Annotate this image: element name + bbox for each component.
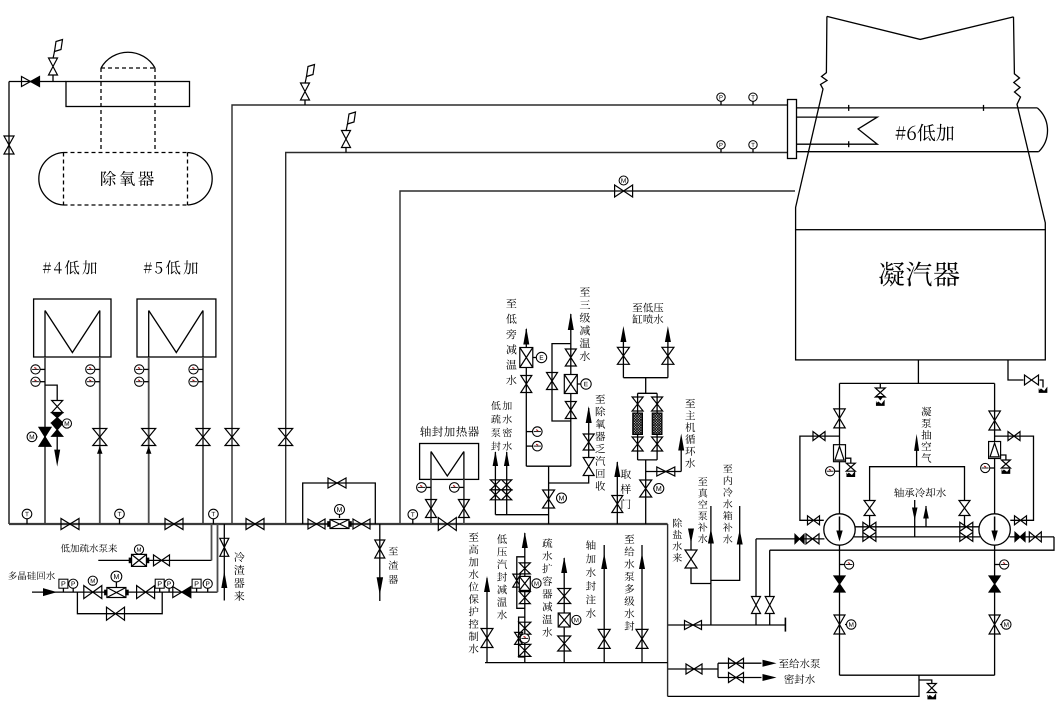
wire LP spray drop <box>645 378 647 394</box>
instrument T2a <box>86 365 95 374</box>
motor valve on run 3 <box>615 185 633 197</box>
wire gland-fill riser <box>603 545 605 663</box>
label sampling valve <box>621 469 632 509</box>
gland heater tube V <box>431 452 464 477</box>
label to LP cylinder 2 <box>633 314 664 324</box>
motor circle discharge B <box>1002 620 1011 629</box>
seal riser valve upper x506.7 <box>502 480 512 490</box>
wire gland-spray riser <box>524 533 526 663</box>
deaerator neck right (dashed) <box>154 68 156 153</box>
air header valve right <box>959 501 970 516</box>
stub gland T left <box>426 486 431 488</box>
label drain pump seal col1 <box>491 401 500 451</box>
flashtank control valve <box>558 613 570 627</box>
riser seal branch right <box>769 550 771 596</box>
seal riser valve lower x506.7 <box>502 490 512 500</box>
pressure gauge pg2 <box>165 579 174 588</box>
wire feedpump seal branch <box>668 668 718 670</box>
valve drain-pump line <box>154 555 170 566</box>
gland-spray arrow <box>522 532 528 548</box>
makeup distribution header <box>668 624 786 626</box>
gland-spray block upper-1 <box>519 563 530 574</box>
drain funnel on header <box>876 401 884 406</box>
stub inst b <box>526 445 532 447</box>
stub motor collector <box>555 498 557 500</box>
3rd-stage control valve <box>564 375 577 394</box>
vent flag run 2 <box>346 112 356 131</box>
header valve 2 <box>165 519 183 530</box>
motor valve LP spray <box>640 480 652 497</box>
stub motor LP spray <box>652 488 655 490</box>
bearing cooling return arrow <box>925 506 927 527</box>
check valve polysilicon <box>173 587 191 598</box>
wire LP spray lower drop <box>645 460 647 472</box>
drain stub on bottom riser <box>919 680 932 683</box>
arrow feedpump seal lower <box>763 674 777 681</box>
vent stem run1 <box>304 100 306 106</box>
wire exhaust recovery <box>549 476 589 483</box>
seal branch valve right <box>765 597 774 614</box>
polysilicon inlet arrow <box>43 588 57 596</box>
3rd-stage bypass valve <box>547 373 558 390</box>
#4 heater tube W <box>44 311 46 358</box>
discharge gauge A <box>845 560 854 569</box>
LP-bypass spray arrow <box>523 328 529 345</box>
header thermometer at x213.4 <box>209 509 219 519</box>
stem polysilicon motor <box>92 584 94 587</box>
3rd-stage spray arrow <box>568 313 574 330</box>
discharge check valve A <box>834 576 845 592</box>
deaerator neck left (dashed) <box>100 68 102 153</box>
suction pressure gauge A <box>826 467 835 476</box>
seal riser valve upper x495.4 <box>490 480 500 490</box>
wire from LP drain pumps <box>98 559 211 561</box>
wire circ water branch <box>646 471 682 473</box>
label to LP bypass spray <box>506 299 516 385</box>
motor circle collector <box>557 493 567 503</box>
bypass valve polysilicon <box>107 607 125 620</box>
#6 heater tube banner <box>797 117 878 144</box>
LP spray valve right <box>662 347 674 364</box>
vacuum makeup arrow <box>708 529 714 544</box>
wire #4 drain bypass <box>45 385 57 400</box>
header valve 1 <box>61 519 79 530</box>
header control block valve R <box>353 519 370 529</box>
deaerator tank bottom (dashed) <box>64 204 188 206</box>
motor valve drain-pump line <box>129 554 148 566</box>
motor circle header control <box>335 505 345 515</box>
bearing cooling supply arrow <box>914 500 916 537</box>
demin water valve <box>685 550 697 568</box>
stub motor A <box>845 624 847 626</box>
suction valve pump A <box>834 409 845 428</box>
instrument T4a <box>189 365 198 374</box>
wire 3rd-stage spray line <box>570 314 572 466</box>
pipe run 3 (condenser makeup) <box>400 191 795 524</box>
drain drop right <box>994 383 996 513</box>
motor valve on collector drop <box>543 490 555 508</box>
recirc valve B top <box>1008 432 1020 441</box>
#4 LP heater box <box>34 299 111 357</box>
motor circle LP spray <box>654 484 664 494</box>
header control block valve L <box>308 519 325 529</box>
label #5 LP heater <box>144 260 198 274</box>
valve polysilicon 2 <box>137 586 155 599</box>
bypass valve middle <box>52 413 63 423</box>
wire seal riser x495.4 <box>494 452 496 515</box>
wire LP spray manifold <box>623 377 668 379</box>
exhaust recovery valve lower <box>583 458 594 476</box>
wire relief-valve stem <box>52 75 54 82</box>
stub motor circle to valve <box>36 436 39 438</box>
strainer drain funnel B <box>1002 469 1010 474</box>
condensate pipe heater 4 <box>202 357 204 524</box>
#5 LP heater box <box>137 299 216 357</box>
crossover valve upper B <box>960 522 973 531</box>
instrument stub T3a <box>144 368 149 370</box>
slag return valve <box>220 538 229 556</box>
stub header T mid <box>412 519 414 524</box>
instrument T4b <box>189 377 198 386</box>
check valve on deaerator outlet <box>22 77 40 87</box>
wire cooling-tank makeup <box>711 506 740 580</box>
drain arrow small <box>877 396 884 401</box>
instrument stub T4b <box>198 381 203 383</box>
stem ps3 <box>196 588 198 592</box>
instrument T1b <box>31 377 40 386</box>
recirc valve B bottom <box>1015 516 1027 525</box>
exhaust recovery arrow <box>586 406 592 423</box>
stub motor B <box>1000 624 1002 626</box>
wire bypass drain tail <box>56 436 58 450</box>
motor circle polysilicon <box>88 576 97 585</box>
wire sampling line <box>616 462 618 524</box>
flow arrow pipe 3 <box>146 446 152 454</box>
#6 heater shell bottom <box>797 151 1039 153</box>
control valve polysilicon <box>105 588 128 598</box>
strainer drain valve B <box>1001 460 1010 468</box>
wire flashtank-spray riser <box>563 558 565 663</box>
riser seal branch left <box>755 539 757 597</box>
wire multiseal riser <box>641 545 643 663</box>
LP spray arrow left <box>620 326 626 342</box>
label seal water <box>784 674 815 684</box>
wire gland-spray bypass upper <box>517 557 525 609</box>
wire pump B recirc <box>995 436 1034 520</box>
seal riser arrow x506.7 <box>504 451 510 466</box>
check on seal inlet A <box>795 534 804 543</box>
wire circ water riser <box>680 449 682 472</box>
flange plate of #6 heater <box>788 100 797 159</box>
stub T at y105 <box>752 101 754 105</box>
positioner E of LP-bypass valve <box>536 352 546 362</box>
deaerator dome base (dashed) <box>101 67 155 69</box>
wire strainer branch x657.1 <box>656 393 658 460</box>
wire demin to riser <box>691 568 711 584</box>
check valve on pump B discharge <box>1015 532 1025 541</box>
stub pressure instrument B <box>985 467 994 469</box>
label to vacuum pump makeup <box>698 477 708 543</box>
LP-bypass block valve <box>521 376 532 393</box>
instrument stub T3b <box>144 381 149 383</box>
strainer outlet valve x657.1 <box>652 437 663 451</box>
riser drain pump line <box>211 524 213 560</box>
bypass valve upper <box>52 401 63 413</box>
seal riser valve lower x495.4 <box>490 490 500 500</box>
wire LP spray to header <box>645 472 647 525</box>
main header right drop <box>667 524 669 696</box>
stem header control motor <box>339 515 341 519</box>
wire slag cooler drain <box>379 524 381 601</box>
label drain pump seal col2 <box>503 401 512 451</box>
bypass drain arrow <box>54 450 60 467</box>
pump drop B <box>994 545 996 675</box>
pump crossover upper <box>855 526 979 528</box>
positioner E of 3rd-stage valve <box>581 379 591 389</box>
flashtank block upper <box>558 589 571 604</box>
label to slag cooler <box>389 547 399 584</box>
label to LP cylinder 1 <box>633 303 664 313</box>
gland-fill valve <box>598 629 610 648</box>
gland-spray control valve <box>519 576 530 590</box>
sampling valve <box>612 496 623 513</box>
label #6 LP heater <box>896 124 954 141</box>
drain valve on discharge header <box>927 684 936 693</box>
valve feedpump seal upper <box>729 658 744 668</box>
deaerator tank seam right (dashed) <box>187 153 189 206</box>
flow arrow pipe 2 <box>97 446 103 454</box>
gland thermometer left <box>417 483 427 493</box>
header motor control valve <box>328 520 351 529</box>
multiseal valve <box>636 629 648 648</box>
condenser drain stub <box>917 360 919 384</box>
cooling tank makeup arrow <box>737 530 743 545</box>
service water manifold <box>485 662 668 664</box>
motor circle of #4 pipe valve <box>27 432 37 442</box>
wire polysilicon bypass <box>77 592 162 614</box>
strainer x637.6 <box>633 413 643 434</box>
header thermometer at x27 <box>22 509 32 519</box>
#6 heater shell right cap <box>1037 108 1047 152</box>
label gland seal heater <box>420 426 479 437</box>
gland seal heater box <box>420 444 479 480</box>
valve on pump B discharge <box>1029 532 1041 542</box>
wire strainer split top <box>638 392 658 394</box>
circ water arrow <box>678 434 684 451</box>
wire exhaust recovery riser <box>588 408 590 458</box>
instrument T1a <box>31 365 40 374</box>
air header valve left <box>864 501 875 516</box>
label flash tank spray <box>542 538 552 637</box>
wire collector drop <box>548 466 550 524</box>
stub header T at x119.5 <box>119 519 121 525</box>
LP spray valve left <box>617 347 629 364</box>
header thermometer at x119.5 <box>115 509 125 519</box>
valve on run-1 drop <box>225 429 239 446</box>
wire LP spray branch left <box>622 332 624 378</box>
#5 heater tube V <box>149 311 203 353</box>
label condenser <box>879 262 959 287</box>
drain drop left <box>839 383 841 513</box>
label demin water supply <box>673 518 683 562</box>
gland thermometer right <box>450 483 460 493</box>
wire pump B discharge <box>1010 536 1055 538</box>
wire spray collector <box>526 465 571 467</box>
label to feed pump <box>779 659 820 669</box>
stem drain-pump motor <box>138 553 140 555</box>
instrument P on run y105 <box>717 93 725 101</box>
bearing cooling arrow up <box>923 506 929 519</box>
vent flag of relief valve <box>53 40 63 59</box>
motor drain valve on #4 pipe <box>39 427 51 446</box>
HP-protection valve <box>481 629 493 648</box>
discharge check valve B <box>989 576 1000 592</box>
stub T at y152.5 <box>752 149 754 153</box>
pressure switch ps2 <box>155 579 164 588</box>
condenser neck left edge <box>796 16 827 229</box>
stub inst a <box>526 431 532 433</box>
wire slag cooler return <box>223 524 225 601</box>
instrument T on run y152.5 <box>749 141 757 149</box>
label to 3rd stage spray <box>580 287 590 361</box>
label LP gland seal spray <box>497 534 507 619</box>
vent valve run 2 <box>342 131 351 148</box>
gland-spray block upper-2 <box>519 592 530 604</box>
seal branch valve left <box>752 597 761 614</box>
wire discharge return run <box>770 537 1054 550</box>
wire condenser right drain <box>1008 360 1024 380</box>
header thermometer mid <box>408 510 418 520</box>
wire header control bypass <box>303 483 376 524</box>
demin water arrow <box>688 529 694 544</box>
main condensate header <box>9 523 668 525</box>
#5 heater tube W right <box>202 311 204 358</box>
LP-bypass control valve <box>520 348 533 368</box>
wire gland-spray bypass lower <box>519 617 525 657</box>
wire bottom return line <box>668 675 919 696</box>
pipe run 1 (to #6 heater top) <box>232 105 788 524</box>
gland heater valve right <box>458 500 469 518</box>
discharge motor valve B <box>989 615 1000 634</box>
stub P at y105 <box>720 101 722 105</box>
valve on seal inlet A <box>806 534 819 544</box>
valve on makeup header <box>685 621 702 630</box>
gland heater pipe right <box>463 479 465 524</box>
pump crossover lower <box>854 536 980 538</box>
wire feedpump seal lower <box>718 677 762 679</box>
3rd-stage block valve lower <box>565 402 576 419</box>
label deaerator <box>101 171 154 186</box>
wire LP-bypass spray line <box>525 329 527 466</box>
3rd-stage block valve upper <box>565 349 576 366</box>
suction valve pump B <box>989 411 1001 430</box>
instrument stub T2a <box>95 368 100 370</box>
header valve 4 (gland heater) <box>438 518 456 531</box>
wire HP-protection riser <box>486 578 488 663</box>
tick mark on shell <box>848 105 850 111</box>
recirc valve A bottom <box>808 516 820 525</box>
motor circle gland-spray <box>532 579 541 588</box>
flow instrument gland-spray <box>520 634 529 643</box>
stem control polysilicon <box>115 582 117 588</box>
slag drain valve <box>375 540 385 558</box>
bearing cooling arrow down <box>912 508 918 521</box>
air header riser right <box>964 515 966 527</box>
gland heater tube right <box>463 452 465 480</box>
motor circle of bypass motor valve <box>62 419 71 428</box>
discharge motor valve A <box>834 615 845 634</box>
crossover valve lower A <box>863 532 876 541</box>
bypass motor valve <box>52 423 63 436</box>
tick mark on shell 2 <box>983 105 985 111</box>
valve feedpump seal lower <box>729 673 744 683</box>
stub header T at x27 <box>26 519 28 525</box>
recirc valve A top <box>813 432 825 441</box>
#4 heater tube V <box>45 311 100 353</box>
strainer drain wire A <box>846 458 851 463</box>
label deaerator exhaust recovery <box>595 394 605 490</box>
pressure gauge pg1 <box>69 579 78 588</box>
multiseal arrow <box>639 553 645 569</box>
deaerator tank top (dashed) <box>64 152 188 154</box>
condenser neck right edge <box>1014 17 1046 230</box>
stem ps2 <box>159 588 161 592</box>
riser seal right tail <box>769 614 771 626</box>
label feed pump multistage seal <box>625 534 635 630</box>
instrument stub T1a <box>40 368 45 370</box>
header bypass valve <box>328 478 346 488</box>
wire demin water drop <box>690 540 692 550</box>
wire air extraction header <box>870 467 965 501</box>
air extraction arrow <box>914 434 919 451</box>
valve on condenser right drain <box>1025 375 1039 385</box>
label bearing cooling water <box>894 488 946 498</box>
stub pressure instrument A <box>830 470 839 472</box>
strainer drain valve A <box>846 463 855 471</box>
#5 heater tube W <box>148 311 150 358</box>
instrument T on run y105 <box>749 93 757 101</box>
LP spray arrow right <box>665 326 671 342</box>
stub E circle <box>533 357 537 359</box>
slag return arrow <box>221 571 227 588</box>
pressure switch ps3 <box>192 579 201 588</box>
pressure gauge pg3 <box>203 579 212 588</box>
valve on left drop pipe <box>4 136 14 154</box>
condenser body <box>796 230 1046 360</box>
drain funnel discharge header <box>928 694 936 699</box>
flashtank-spray arrow <box>561 557 567 573</box>
suction strainer pump A <box>834 445 846 462</box>
gland-spray block lower-2 <box>519 644 531 656</box>
valve on heater pipe 4 <box>196 429 210 446</box>
instrument on LP-bypass line b <box>533 441 543 451</box>
label HP heater level protection water <box>469 532 479 653</box>
motor circle of run-3 valve <box>619 176 628 185</box>
instrument on LP-bypass line a <box>533 427 543 437</box>
wire pump A recirc <box>800 436 840 520</box>
riser seal left tail <box>755 614 757 626</box>
instrument T3a <box>135 365 144 374</box>
stub gland T right <box>459 486 464 488</box>
drain stem small <box>879 383 881 388</box>
wire vacuum-pump makeup riser <box>710 506 712 625</box>
strainer outlet valve x637.6 <box>632 437 643 451</box>
label gland seal fill water <box>586 540 596 618</box>
pipe run 2 (to #6 heater bottom) <box>286 153 788 525</box>
condensate pipe heater 2 <box>99 357 101 524</box>
gland heater pipe left <box>430 479 432 524</box>
wire strainer branch x637.6 <box>637 393 639 460</box>
